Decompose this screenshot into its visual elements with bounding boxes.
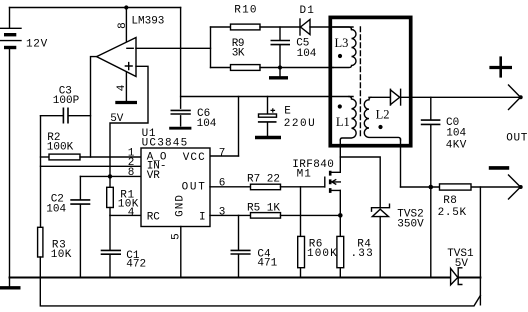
svg-text:5V: 5V [455,258,469,270]
wire minus drop right [479,187,481,305]
capacitor C4 [231,215,278,277]
wire pin5 GND stub [180,227,182,278]
capacitor C1 [101,215,146,277]
svg-text:350V: 350V [397,219,424,231]
node junction top rail / opamp pin8 [124,5,128,9]
wire drain to TVS2 [340,157,380,208]
svg-text:7: 7 [219,147,226,159]
resistor R3 [38,227,72,277]
IC U1 UC3845 [128,128,226,227]
wire opamp pin 8 [125,8,127,43]
battery 12V [1,8,48,287]
inductor L1 [340,97,356,141]
wire pin6 OUT line [210,186,251,188]
wire minus output rail [401,186,520,188]
svg-text:104: 104 [197,118,217,130]
wire C0 down to ground rail [430,187,432,278]
terminal + output arrow [509,85,523,110]
minus symbol [489,166,509,170]
svg-text:VR: VR [147,170,161,182]
svg-text:I: I [199,212,206,224]
svg-text:R10: R10 [234,5,257,17]
svg-text:10K: 10K [51,249,72,261]
wire opamp + input to 5V node [110,66,148,176]
inductor L3 [333,30,356,68]
svg-text:VCC: VCC [183,152,206,164]
wire pin3 line [210,214,251,216]
TVS1 5V [447,248,474,285]
svg-text:5: 5 [171,233,183,240]
wire L3 top entering box [333,27,352,30]
op-amp U2 LM393 [97,15,165,76]
svg-text:OUT: OUT [182,182,207,194]
capacitor E 220U [255,97,316,138]
wire L2 bottom to minus rail [400,139,402,187]
wire 12V mid rail [181,96,353,98]
resistor R5 [247,202,340,218]
svg-text:OUT: OUT [506,133,528,145]
wire pin2 line [41,165,142,167]
svg-text:8: 8 [128,167,135,179]
ground (opamp pin4) [115,101,137,104]
svg-text:472: 472 [126,258,146,270]
svg-text:M1: M1 [297,169,312,181]
transistor M1 IRF840 [292,140,340,215]
diode D1 [300,5,354,35]
wire opamp inverting input to R9/R10 node [136,47,211,49]
svg-text:12V: 12V [26,38,48,50]
svg-text:3K: 3K [232,48,245,60]
svg-text:GND: GND [175,194,187,217]
node junction C5/R9/gnd [278,65,282,69]
transformer box T1 [330,17,410,145]
svg-text:R8: R8 [443,195,457,207]
resistor R6 [298,187,338,278]
svg-text:LM393: LM393 [131,15,164,27]
svg-text:4: 4 [116,84,128,91]
TVS2 350V [372,204,425,277]
phase dot L3 [338,54,342,58]
capacitor C5 [271,27,317,68]
svg-text:220U: 220U [284,118,316,130]
terminal - output arrow [509,175,523,199]
wire L2 top to diode [369,96,390,98]
wire R9/R10 left vertical [210,27,212,68]
svg-text:D1: D1 [300,5,315,17]
wire ground rail [10,277,451,279]
core (dashed) [359,27,361,139]
capacitor C0 [421,97,467,187]
wire bottom return loop [40,278,480,306]
resistor R1 [107,176,139,215]
node junction source/R5/R4 [338,213,343,218]
wire + output rail [401,96,520,98]
resistor R2 [41,132,142,160]
wire pin4 line [110,214,141,216]
wire pin8 line [80,175,141,177]
resistor R10 [211,5,301,30]
svg-text:3: 3 [219,207,226,219]
wire opamp pin 4 [125,72,127,101]
wire VCC drop [238,97,240,157]
svg-text:E: E [284,106,291,118]
svg-text:.33: .33 [351,248,374,260]
svg-text:RC: RC [147,212,161,224]
svg-text:100K: 100K [47,141,74,153]
svg-text:104: 104 [46,203,66,215]
svg-text:UC3845: UC3845 [142,137,189,149]
node junction C0/minus rail [429,185,434,190]
capacitor C3 [41,85,91,123]
svg-text:104: 104 [297,48,317,60]
svg-text:L3: L3 [335,36,349,50]
resistor R8 [438,184,471,219]
capacitor C2 [46,176,90,277]
ground (battery) [0,286,21,289]
resistor R7 [247,174,325,190]
diode D2 (output rectifier) [391,89,401,105]
plus symbol [489,66,512,69]
svg-text:L1: L1 [336,115,350,129]
resistor R4 [337,215,374,277]
svg-text:104: 104 [446,128,466,140]
wire node A vertical (C3/R2/pin2/R3) [40,116,42,228]
svg-text:5V: 5V [110,113,124,125]
phase dot L2 [378,125,382,129]
node junction 5V/R1/pin8 [108,174,112,178]
wire opamp output down to pin1 line [91,57,97,157]
svg-text:100K: 100K [307,248,338,260]
svg-text:6: 6 [219,178,226,190]
wire top 12V rail [10,7,181,9]
svg-text:8: 8 [117,22,129,29]
svg-text:R7 22: R7 22 [247,174,280,186]
inductor L2 [364,97,400,140]
resistor R9 [211,38,334,71]
svg-text:4KV: 4KV [446,139,467,151]
svg-text:100P: 100P [53,95,80,107]
wire pin7 [210,155,239,157]
ground (C5) [279,68,281,76]
phase dot L1 [338,104,342,108]
svg-text:2.5K: 2.5K [438,207,467,219]
svg-text:L2: L2 [376,108,390,122]
capacitor C6 [169,8,217,131]
svg-text:4: 4 [128,207,135,219]
svg-text:R5 1K: R5 1K [247,202,280,214]
svg-text:471: 471 [257,258,277,270]
